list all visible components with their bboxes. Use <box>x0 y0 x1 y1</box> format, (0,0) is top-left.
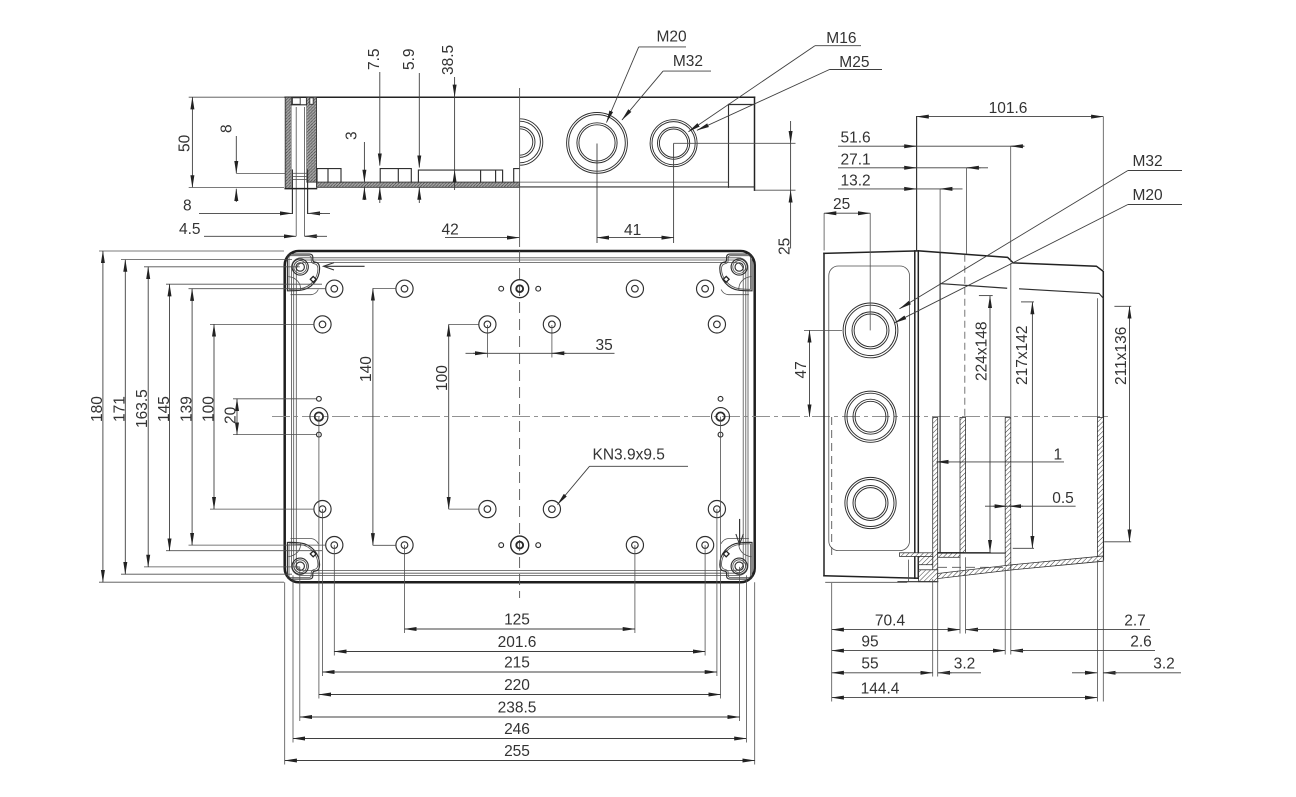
extension line for dim 201.6 left <box>333 545 335 655</box>
svg-text:20: 20 <box>223 406 240 424</box>
dim 35 dropper right <box>551 325 553 358</box>
corner boss bottom-left <box>287 539 319 580</box>
dim 3.2 left tail <box>938 672 981 674</box>
sectioned knockout arc outer a <box>520 119 543 165</box>
knockout bottom ring 3 <box>853 486 888 521</box>
ext boss bottom left <box>144 566 300 568</box>
extension line for dim 215 right <box>716 509 718 676</box>
dim 2.6 tail <box>1011 650 1155 652</box>
svg-text:1: 1 <box>1054 447 1063 464</box>
knockout M16/M25 ring inner b <box>659 129 687 157</box>
corner boss top-right <box>720 254 752 295</box>
dim 35 arrow right <box>552 352 566 354</box>
dim 217x142 hook top <box>1021 301 1034 303</box>
dim 55 line <box>832 672 933 674</box>
dim 5.9 line upper <box>418 73 420 168</box>
dim 3.2 right tail <box>1103 672 1181 674</box>
svg-text:38.5: 38.5 <box>440 45 457 75</box>
extension hole center to 25 dim <box>674 142 796 144</box>
mounting hole (716.9,324.4) <box>708 316 725 333</box>
vertical centerline dashed <box>519 251 521 598</box>
ext rim top left <box>121 259 292 261</box>
extension line for dim 220 left <box>318 417 320 699</box>
dim 95 line <box>832 650 1005 652</box>
label KN underline <box>590 465 689 467</box>
extension line for dim 246 right <box>745 575 747 742</box>
plan inner rim line 2 <box>294 260 746 573</box>
svg-text:8: 8 <box>219 124 236 133</box>
ext wall2 vertical b <box>965 557 967 633</box>
dim 140 line <box>372 288 374 545</box>
dim 171 line <box>124 260 126 575</box>
center hole bottom <box>511 536 529 554</box>
ext 139 bottom <box>189 544 326 546</box>
middle hole left <box>310 408 328 426</box>
svg-text:55: 55 <box>861 656 878 673</box>
PLANVIEW <box>272 251 1112 598</box>
wall top cap notch left <box>292 98 300 105</box>
knockout top ring 4 <box>854 314 887 347</box>
dim 50 extension bottom <box>189 186 284 188</box>
body top profile <box>919 251 1103 560</box>
mounting hole (634.9,545.1) <box>626 537 643 554</box>
dim 7.5 line upper <box>379 72 381 166</box>
svg-text:M16: M16 <box>826 30 856 47</box>
screw shaft inner line right <box>303 107 305 236</box>
dim 51.6 line <box>838 145 1024 147</box>
knockout M20/M32 ring inner b <box>579 125 615 161</box>
dim 217x142 line <box>1031 302 1033 548</box>
floor bottom edge right half <box>520 186 755 188</box>
knockout axis M20 <box>596 144 598 244</box>
extension line for dim 246 left <box>292 575 294 742</box>
rim flange hatched <box>900 553 933 557</box>
ext 13.2 vertical <box>939 189 941 252</box>
dim 20 line <box>236 399 238 435</box>
svg-text:215: 215 <box>504 655 530 672</box>
lid block left edge <box>823 253 825 575</box>
sectioned knockout arc inner b <box>520 129 533 155</box>
pilot dot (720.5,398.8) <box>718 396 723 401</box>
svg-text:2.6: 2.6 <box>1130 634 1152 651</box>
knockout bottom ring 4 <box>855 488 886 519</box>
mounting hole (487.4,324.4) <box>479 316 496 333</box>
svg-text:51.6: 51.6 <box>841 130 871 147</box>
pilot dot (318.9,398.8) <box>317 396 322 401</box>
svg-text:27.1: 27.1 <box>841 151 871 168</box>
dim 47 ext top <box>804 329 842 331</box>
extension line for dim 255 left <box>284 582 286 764</box>
svg-text:145: 145 <box>156 396 173 422</box>
svg-text:201.6: 201.6 <box>498 634 537 651</box>
dim 224x148 hook top <box>979 295 993 297</box>
extension line for dim 255 right <box>754 582 756 764</box>
ext 25 axis vertical <box>869 213 871 330</box>
svg-text:KN3.9x9.5: KN3.9x9.5 <box>593 447 665 464</box>
sectioned wall 1 <box>933 418 938 580</box>
shroud inner edge line <box>940 284 1007 289</box>
closing direction arrow top-left <box>324 263 365 270</box>
dim 100 inner hook bottom <box>449 508 479 510</box>
label M16 underline <box>815 45 861 47</box>
mounting hole (705.1,545.1) <box>697 537 714 554</box>
label M16 leader <box>689 46 815 132</box>
RIGHTVIEW <box>824 251 1103 582</box>
ext 20 bottom <box>233 434 316 436</box>
sectioned wall 3 <box>1005 418 1011 569</box>
dim 13.2 arrow right <box>940 188 954 190</box>
dim 0.5 line <box>985 505 1076 507</box>
dim 2.6 arrow <box>1011 650 1025 652</box>
mounting hole (334.3,288.7) <box>326 280 343 297</box>
pilot dot (720.5,434.6) <box>718 432 723 437</box>
dim 140 hook top <box>373 287 396 289</box>
svg-text:M32: M32 <box>673 53 703 70</box>
lid bottom lip edge <box>898 581 938 583</box>
ext bottom edge left <box>99 581 284 583</box>
svg-text:217x142: 217x142 <box>1014 326 1031 385</box>
ext 25 left vertical <box>823 213 825 250</box>
dim 35 line <box>466 352 615 354</box>
label M32 underline <box>663 70 711 72</box>
label M25 leader <box>697 70 830 131</box>
dim 180 line <box>102 251 104 582</box>
svg-text:3: 3 <box>344 131 361 140</box>
wall edge above centerline right <box>1096 298 1098 417</box>
svg-text:M20: M20 <box>1133 187 1164 204</box>
bottom sloped band 1 <box>938 565 1011 579</box>
svg-text:171: 171 <box>112 396 129 422</box>
ext wall3 vertical b <box>1010 568 1012 654</box>
svg-text:211x136: 211x136 <box>1113 327 1130 385</box>
corner boss bottom-right <box>720 539 752 580</box>
extension line for dim 220 right <box>720 417 722 699</box>
knockout M20/M32 ring outer a <box>567 112 628 173</box>
knockout M20/M32 ring outer b <box>569 115 626 172</box>
dim 0.5 arrow right <box>1009 505 1023 507</box>
svg-text:101.6: 101.6 <box>989 100 1028 117</box>
svg-text:238.5: 238.5 <box>498 700 537 717</box>
knockout M16/M25 ring outer b <box>652 122 695 165</box>
dim 3 line upper <box>363 142 365 182</box>
svg-text:100: 100 <box>434 365 451 391</box>
dim 38.5 line mid <box>454 97 456 170</box>
dim 211x136 hook top <box>1114 305 1131 307</box>
bottom sloped band 2 <box>1011 556 1104 570</box>
svg-text:220: 220 <box>504 677 530 694</box>
dim 25 line <box>824 212 870 214</box>
dim 4.5 tail <box>305 235 327 237</box>
dim 101.6 line <box>917 116 1104 118</box>
svg-text:47: 47 <box>793 361 810 378</box>
svg-text:13.2: 13.2 <box>841 172 871 189</box>
dim 27.1 line <box>838 167 988 169</box>
label 1 arrow <box>937 461 951 463</box>
dim 238.5 line <box>300 716 740 718</box>
side view end tab vertical <box>728 105 730 188</box>
dim 25 arrow up <box>790 190 792 204</box>
dim 3.2 right arrow a <box>1083 672 1097 674</box>
svg-text:125: 125 <box>504 612 530 629</box>
label KN leader <box>558 466 590 504</box>
svg-text:41: 41 <box>624 222 641 239</box>
step bottom band hatched <box>938 552 960 557</box>
rim block hatched <box>919 556 933 564</box>
ext 70.4 left vertical <box>831 583 833 702</box>
horizontal centerline <box>272 416 1112 418</box>
pilot dot (538.2,545.1) <box>536 543 541 548</box>
knockout mid ring 3 <box>853 399 888 434</box>
dim 25 line top arrow <box>790 121 792 143</box>
screw head line 2 <box>292 175 307 177</box>
dim 140 hook bottom <box>373 544 396 546</box>
dim 13.2 line <box>838 188 963 190</box>
extension line for dim 201.6 right <box>704 545 706 655</box>
mounting hole (404.5,288.7) <box>396 280 413 297</box>
svg-text:35: 35 <box>596 337 613 354</box>
sectioned knockout arc outer b <box>520 121 541 163</box>
extension line for dim 238.5 right <box>739 567 741 721</box>
svg-text:3.2: 3.2 <box>954 656 976 673</box>
ext 145 top <box>166 283 322 285</box>
dim 13.2 arrow left <box>903 188 917 190</box>
side view end tab top <box>729 104 755 106</box>
middle hole right <box>712 408 730 426</box>
svg-text:180: 180 <box>89 396 106 422</box>
svg-text:5.9: 5.9 <box>401 48 418 70</box>
label M32 right underline <box>1128 170 1182 172</box>
floor top edge right of section <box>520 181 729 183</box>
lid inner bottom vertical <box>908 560 910 581</box>
mounting hole (322.5,509.1) <box>314 501 331 518</box>
ext 100 bottom <box>210 508 314 510</box>
dim 163.5 line <box>147 267 149 567</box>
mounting hole (404.5,545.1) <box>396 537 413 554</box>
ext 100 top <box>210 323 314 325</box>
dim 38.5 tail <box>454 184 456 190</box>
svg-text:2.7: 2.7 <box>1124 613 1146 630</box>
knockout top ring 1 <box>843 303 898 358</box>
step top edge line <box>938 552 1006 554</box>
channel top line <box>291 104 306 106</box>
svg-text:50: 50 <box>177 134 194 152</box>
label M20 right leader <box>895 205 1128 323</box>
svg-text:255: 255 <box>504 743 530 760</box>
svg-text:42: 42 <box>442 222 459 239</box>
screw shaft inner line left <box>295 107 297 236</box>
dim 3 line lower <box>363 188 365 200</box>
knockout mid ring 2 <box>847 393 894 440</box>
svg-text:139: 139 <box>179 396 196 422</box>
extension line for dim 238.5 left <box>299 567 301 721</box>
side view top surface line <box>285 96 755 98</box>
svg-text:224x148: 224x148 <box>974 322 991 381</box>
dim 38.5 line upper <box>454 77 456 97</box>
floor plateau <box>418 170 502 182</box>
svg-text:M25: M25 <box>839 54 869 71</box>
label 1 line <box>944 461 1064 463</box>
corner boss top-left <box>287 254 319 295</box>
label M20 right underline <box>1128 204 1182 206</box>
extension line for dim 125 left <box>404 545 406 633</box>
dim 144.4 line <box>832 697 1097 699</box>
hidden edge dashed shroud <box>964 255 966 417</box>
dim 3.2 right arrow b <box>1103 672 1117 674</box>
lid inner rounded rect <box>829 266 910 551</box>
mounting hole (705.1,288.7) <box>697 280 714 297</box>
svg-text:4.5: 4.5 <box>179 221 201 238</box>
lid screw channel <box>291 105 306 189</box>
ext 27.1 vertical <box>966 168 968 254</box>
wall bottom edge <box>285 188 316 190</box>
svg-text:0.5: 0.5 <box>1052 490 1074 507</box>
knockout bottom ring 1 <box>845 477 896 528</box>
ext pole lid joint <box>916 117 918 250</box>
label M25 underline <box>830 69 883 71</box>
floor boss right stub <box>514 169 520 183</box>
dim 145 line <box>169 284 171 551</box>
dim 246 line <box>293 738 746 740</box>
dim 100 inner hook top <box>449 323 479 325</box>
dim 2.7 tail <box>966 629 1150 631</box>
dim 8 bottom tail <box>308 212 330 214</box>
svg-text:100: 100 <box>201 396 218 422</box>
knockout mid ring 1 <box>845 391 896 442</box>
svg-text:8: 8 <box>183 198 192 215</box>
dim 25 tail <box>790 204 792 249</box>
extension line for dim 215 left <box>322 509 324 676</box>
ext 51.6 vertical <box>1010 146 1012 262</box>
dim 215 line <box>323 671 717 673</box>
mounting hole (634.9,288.7) <box>626 280 643 297</box>
sectioned wall 2 <box>960 418 966 553</box>
knockout M20/M32 ring inner a <box>577 123 617 163</box>
dim 100 left line <box>213 324 215 509</box>
dim 47 line <box>809 330 811 416</box>
knockout bottom ring 2 <box>847 480 894 527</box>
side view centerline <box>519 88 521 247</box>
knockout mid ring 4 <box>855 401 886 432</box>
wall edge above centerline mid <box>1010 263 1012 417</box>
label M20 leader <box>607 47 639 123</box>
label M32 leader <box>622 71 663 120</box>
dim 8 bottom line left <box>199 212 292 214</box>
dim 35 dropper left <box>486 325 488 358</box>
ext wall1 vertical b <box>937 579 939 676</box>
dim 51.6 arrow right <box>1011 145 1025 147</box>
dim 0.5 arrow left <box>993 505 1007 507</box>
svg-text:M32: M32 <box>1133 153 1163 170</box>
dim 201.6 line <box>334 651 705 653</box>
plan outer rounded rect <box>285 251 755 582</box>
ext 20 top <box>233 398 316 400</box>
sectioned left wall hatch right band <box>306 97 316 182</box>
screw head line 1 <box>292 172 307 174</box>
svg-text:95: 95 <box>861 634 878 651</box>
svg-text:25: 25 <box>777 238 794 255</box>
svg-text:70.4: 70.4 <box>875 613 906 630</box>
svg-text:7.5: 7.5 <box>366 48 383 70</box>
svg-text:144.4: 144.4 <box>861 681 900 698</box>
lid joint line a <box>914 251 916 578</box>
mounting hole (716.9,509.1) <box>708 501 725 518</box>
label M32 right leader <box>900 171 1128 309</box>
screw head line 3 <box>292 178 307 180</box>
ext wall3 vertical a <box>1004 568 1006 654</box>
knockout axis M16 <box>673 143 675 243</box>
wall top cap notch right <box>310 98 313 105</box>
dim 38.5 arrow up <box>454 170 456 184</box>
dim 224x148 hook bottom <box>964 551 991 553</box>
ext rim bottom left <box>121 573 292 575</box>
ext right edge vertical b <box>1102 560 1104 702</box>
dim 8 left line upper <box>235 136 237 173</box>
dim 27.1 arrow left <box>903 167 917 169</box>
dim 255 line <box>285 760 755 762</box>
ext wall1 vertical a <box>932 579 934 676</box>
sectioned knockout arc inner a <box>520 127 535 158</box>
extension tab bottom to 25 dim <box>755 189 796 191</box>
knockout top ring 2 <box>845 305 895 355</box>
ext wall2 vertical a <box>959 557 961 633</box>
svg-text:25: 25 <box>833 196 850 213</box>
center hole top <box>511 280 529 298</box>
dim 211x136 line <box>1129 307 1131 542</box>
side view right end edge <box>754 97 756 190</box>
dim 7.5 line lower <box>379 188 381 203</box>
svg-text:246: 246 <box>504 721 530 738</box>
floor boss 2 <box>380 169 411 183</box>
pilot dot (501.2,288.7) <box>499 286 504 291</box>
lid joint line b <box>917 251 919 578</box>
lid block bottom edge <box>824 576 918 578</box>
dim 25 line mid <box>790 143 792 190</box>
dim 100 inner line <box>448 324 450 509</box>
dim 51.6 arrow left <box>903 145 917 147</box>
dim 41 line <box>597 237 674 239</box>
mounting hole (551.9,509.1) <box>543 501 560 518</box>
dim 8 bottom line right <box>308 212 322 214</box>
knockout M16/M25 ring outer a <box>650 120 697 167</box>
SIDEVIEW <box>285 88 796 247</box>
pilot dot (501.2,545.1) <box>499 543 504 548</box>
dim 8 left line lower <box>235 189 237 202</box>
dim 8 left extension <box>236 172 285 174</box>
screw sleeve outer line left <box>291 170 293 213</box>
svg-text:M20: M20 <box>657 29 688 46</box>
mounting hole (487.4,509.1) <box>479 501 496 518</box>
dim 3.2 left arrow <box>938 672 952 674</box>
dim 224x148 line <box>989 296 991 552</box>
hidden bottom edge dashed <box>938 566 1007 568</box>
lid block top edge <box>824 251 918 254</box>
ext right edge top <box>1102 117 1104 270</box>
plan inner rim line 1 <box>292 258 749 576</box>
body shroud edge vertical <box>939 253 941 553</box>
svg-text:140: 140 <box>358 356 375 382</box>
pilot dot (318.9,434.6) <box>317 432 322 437</box>
floor hatched band (sectioned) <box>317 182 520 187</box>
knockout top ring 3 <box>852 312 889 349</box>
screw sleeve outer line right <box>307 170 309 213</box>
svg-text:3.2: 3.2 <box>1153 656 1175 673</box>
lid skirt line <box>825 581 907 583</box>
dim 42 line <box>445 237 519 239</box>
ext 145 bottom <box>166 550 322 552</box>
ext 139 top <box>189 288 326 290</box>
ext top edge left <box>99 250 284 252</box>
dim 125 line <box>405 628 635 630</box>
